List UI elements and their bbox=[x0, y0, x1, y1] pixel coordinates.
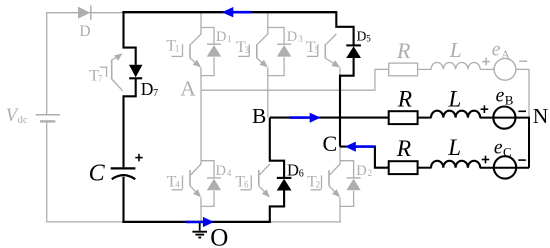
svg-text:C: C bbox=[89, 160, 106, 186]
node C wire bbox=[340, 147, 389, 168]
svg-text:3: 3 bbox=[298, 34, 303, 44]
wire left branch lower bbox=[124, 78, 136, 167]
wire leg1 emitter to bottom rail bbox=[200, 197, 202, 222]
emf source eC bbox=[494, 156, 516, 178]
svg-text:1: 1 bbox=[227, 34, 232, 44]
svg-text:4: 4 bbox=[175, 179, 180, 189]
svg-text:7: 7 bbox=[153, 88, 158, 99]
svg-text:2: 2 bbox=[316, 179, 321, 189]
transistor T4 bbox=[189, 170, 191, 186]
svg-text:6: 6 bbox=[244, 179, 249, 189]
wire leg1 diode return jog bbox=[201, 57, 214, 75]
current arrow bottom rail (pointing right) bbox=[186, 221, 204, 224]
svg-text:e: e bbox=[494, 137, 503, 158]
plus sign phase A bbox=[482, 61, 490, 63]
svg-text:O: O bbox=[210, 225, 228, 248]
inductor L phase C bbox=[431, 161, 480, 168]
diode D7 (black, pointing down) bbox=[129, 65, 142, 78]
svg-text:D: D bbox=[216, 163, 226, 179]
wire bottom rail bbox=[122, 221, 271, 223]
current arrow top rail (pointing left) bbox=[233, 11, 252, 14]
wire top rail bbox=[122, 11, 337, 13]
wire R to L phase C bbox=[418, 167, 432, 169]
wire top rail corner to D5 bbox=[336, 12, 353, 45]
svg-text:B: B bbox=[505, 92, 514, 107]
wire gray bottom rail right portion bbox=[271, 221, 341, 223]
emf source eB bbox=[493, 107, 515, 129]
ground O bbox=[199, 223, 201, 231]
wire node B down to D6 bbox=[270, 118, 284, 178]
svg-text:C: C bbox=[323, 131, 338, 156]
plus sign phase C bbox=[482, 159, 490, 161]
diode D1 bbox=[207, 43, 221, 45]
wire leg3 emitter to bottom rail bbox=[339, 197, 341, 222]
svg-text:7: 7 bbox=[98, 73, 103, 83]
resistor R phase A bbox=[389, 63, 418, 76]
svg-text:D: D bbox=[79, 23, 90, 40]
svg-text:R: R bbox=[397, 86, 412, 112]
svg-text:D: D bbox=[287, 161, 299, 180]
wire node N vertical bbox=[528, 117, 530, 168]
transistor T6 bbox=[258, 170, 260, 186]
current arrow node B (pointing right) bbox=[290, 116, 311, 119]
svg-text:D: D bbox=[287, 29, 297, 45]
svg-text:1: 1 bbox=[175, 43, 180, 53]
wire Vdc bottom lead and bottom-left rail bbox=[47, 121, 123, 221]
resistor R phase B bbox=[389, 111, 418, 124]
wire L to eA bbox=[480, 68, 494, 70]
wire leg1 lower diode return jog bbox=[201, 191, 214, 207]
svg-text:L: L bbox=[448, 86, 462, 111]
diode D bbox=[78, 7, 90, 19]
wire left branch upper bbox=[124, 12, 136, 65]
svg-text:B: B bbox=[252, 104, 266, 128]
node A wire bbox=[201, 69, 389, 90]
current arrow node C (pointing left) bbox=[355, 145, 374, 148]
svg-text:D: D bbox=[356, 163, 366, 179]
emf source eA bbox=[494, 58, 516, 80]
transistor T1 bbox=[189, 44, 191, 59]
svg-text:R: R bbox=[396, 38, 411, 63]
diode D3 bbox=[277, 43, 291, 45]
wire R to L phase B bbox=[418, 117, 432, 119]
diode D2 bbox=[347, 177, 361, 179]
svg-text:D: D bbox=[357, 29, 367, 44]
minus sign phase C bbox=[518, 159, 526, 161]
wire L to node N phase B bbox=[480, 117, 529, 119]
wire C to bottom rail bbox=[122, 177, 124, 222]
svg-text:L: L bbox=[447, 135, 461, 160]
minus sign phase B bbox=[518, 110, 526, 112]
wire leg2 emitter to node B bbox=[267, 67, 269, 117]
capacitor plus sign bbox=[135, 157, 142, 159]
wire leg1 upper diode jog bbox=[201, 28, 214, 45]
inductor L phase A bbox=[431, 62, 480, 69]
svg-text:6: 6 bbox=[299, 169, 304, 180]
resistor R phase C bbox=[389, 161, 418, 174]
wire T5 emitter stub bbox=[339, 67, 341, 76]
wire D6 to bottom rail bbox=[270, 191, 284, 223]
diode D6 (black) bbox=[277, 177, 292, 179]
svg-text:L: L bbox=[449, 38, 462, 62]
wire leg3 lower collector bbox=[339, 147, 341, 164]
svg-text:5: 5 bbox=[366, 34, 371, 44]
wire leg2 collector bbox=[267, 13, 269, 35]
voltage source Vdc bbox=[36, 114, 60, 116]
svg-text:4: 4 bbox=[227, 168, 232, 178]
wire D5 down to node C bbox=[340, 58, 354, 147]
wire eA to node N bbox=[516, 69, 529, 117]
svg-text:dc: dc bbox=[17, 114, 28, 126]
svg-text:5: 5 bbox=[314, 45, 319, 55]
wire leg1 emitter to node A bbox=[200, 67, 202, 90]
node B wire bbox=[270, 117, 389, 119]
transistor T5 bbox=[324, 44, 326, 59]
minus sign phase A bbox=[519, 60, 527, 62]
svg-text:D: D bbox=[141, 79, 154, 99]
svg-text:C: C bbox=[503, 144, 512, 159]
svg-text:e: e bbox=[492, 40, 501, 61]
wire R to L phase A bbox=[418, 68, 432, 70]
wire leg2 upper diode jog bbox=[268, 28, 284, 45]
transistor T2 bbox=[328, 170, 330, 186]
transistor T7 bbox=[111, 60, 113, 80]
diode D5 (black) bbox=[346, 44, 361, 46]
inductor L phase B bbox=[431, 111, 480, 118]
wire Vdc top lead and top-left rail bbox=[47, 13, 124, 114]
svg-text:N: N bbox=[533, 104, 549, 128]
transistor T3 bbox=[256, 44, 258, 59]
wire leg3 lower diode return jog bbox=[340, 191, 354, 207]
svg-text:3: 3 bbox=[245, 45, 250, 55]
svg-text:e: e bbox=[496, 85, 505, 106]
svg-text:A: A bbox=[501, 47, 511, 62]
wire leg1 lower collector bbox=[200, 90, 202, 164]
wire leg1 collector bbox=[200, 13, 202, 35]
svg-text:R: R bbox=[396, 136, 411, 162]
svg-text:2: 2 bbox=[368, 168, 373, 178]
wire leg3 lower diode jog bbox=[340, 161, 354, 178]
wire leg1 lower diode jog bbox=[201, 161, 214, 178]
wire leg2 diode return jog bbox=[268, 57, 284, 75]
wire L to node N phase C bbox=[480, 167, 529, 169]
diode D4 bbox=[207, 177, 221, 179]
capacitor C bbox=[111, 167, 136, 169]
svg-text:A: A bbox=[180, 76, 196, 100]
plus sign phase B bbox=[481, 108, 489, 110]
svg-text:D: D bbox=[216, 29, 226, 45]
